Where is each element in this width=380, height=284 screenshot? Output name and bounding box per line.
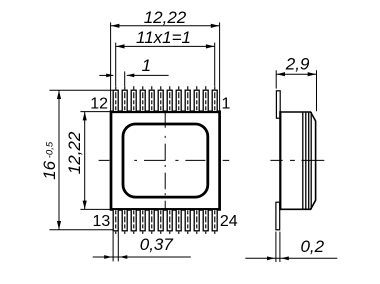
svg-text:12: 12	[90, 96, 108, 113]
dimension 0,2 (lead thickness)	[245, 232, 337, 262]
pin 11	[122, 86, 127, 111]
dimension 12,22 (body height, left)	[65, 112, 110, 210]
side view: top lead	[276, 91, 280, 118]
pin 18	[158, 209, 163, 234]
side view: mould draft line 1	[302, 113, 304, 209]
pin 14	[122, 209, 127, 234]
dimension 2,9 (side view width)	[276, 54, 316, 111]
svg-text:1: 1	[142, 56, 151, 75]
pin 19	[167, 209, 172, 234]
horizontal centerline of main view	[99, 159, 230, 161]
pin 15	[131, 209, 136, 234]
svg-text:0,37: 0,37	[140, 235, 174, 254]
side view: parting edge vertical	[310, 112, 312, 209]
side view: body left edge (thick)	[279, 111, 281, 210]
svg-text:0,2: 0,2	[300, 237, 324, 256]
dimension 11x1=11 (pin span)	[116, 28, 215, 86]
pin 17	[149, 209, 154, 234]
pin 9	[140, 86, 145, 111]
package lid inner rounded rectangle	[123, 124, 208, 197]
svg-text:1: 1	[222, 96, 231, 113]
pin 2	[203, 86, 208, 111]
pin 4	[185, 86, 190, 111]
dimension 16 -0,5 (overall height)	[40, 90, 113, 230]
vertical centerline of main view	[164, 112, 166, 209]
svg-text:12,22: 12,22	[65, 131, 84, 174]
pin 5	[176, 86, 181, 111]
dimension 1 (pin pitch)	[99, 56, 168, 86]
pin 16	[140, 209, 145, 234]
bottom pin row: pins 13..24	[113, 209, 217, 234]
dimension 12,22 (top overall width)	[111, 8, 220, 111]
pin 3	[194, 86, 199, 111]
svg-text:12,22: 12,22	[144, 8, 187, 27]
side view: mould draft line 2	[305, 113, 307, 209]
pin 21	[185, 209, 190, 234]
pin 24	[212, 209, 217, 234]
svg-text:13: 13	[93, 213, 111, 230]
pin 1	[212, 86, 217, 111]
svg-text:2,9: 2,9	[285, 54, 310, 73]
svg-text:24: 24	[220, 213, 238, 230]
pin 12	[113, 86, 118, 111]
pin 22	[194, 209, 199, 234]
pin 13	[113, 209, 118, 234]
side view: body outline	[280, 112, 315, 209]
pin 10	[131, 86, 136, 111]
dimension 0,37 (lead width, bottom)	[93, 231, 191, 261]
pin 20	[176, 209, 181, 234]
side view: mould draft line 3	[308, 113, 310, 209]
pin 7	[158, 86, 163, 111]
package body (main view)	[111, 112, 220, 210]
pin 23	[203, 209, 208, 234]
pin 6	[167, 86, 172, 111]
side view horizontal centerline	[270, 159, 324, 161]
side view: bottom lead	[276, 202, 280, 230]
pin 8	[149, 86, 154, 111]
svg-text:11x1=1: 11x1=1	[136, 28, 191, 47]
top pin row: pins 12..1	[113, 86, 217, 111]
